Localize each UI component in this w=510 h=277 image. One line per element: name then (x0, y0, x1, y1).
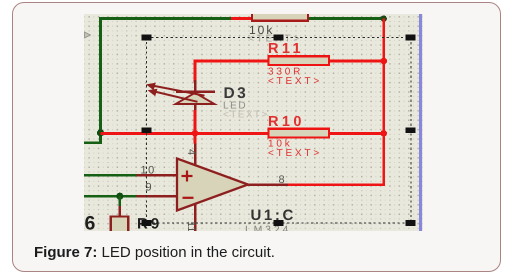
selection handle top-mid (274, 35, 284, 41)
svg-text:D3: D3 (224, 85, 249, 102)
svg-text:4: 4 (185, 149, 197, 155)
pin 10 stub (maroon) (137, 174, 178, 177)
marker: small gray chevron at sheet edge (85, 32, 91, 38)
wire: green op-amp input 10 (84, 174, 137, 177)
op-amp triangle (177, 159, 248, 211)
pin 9 stub (maroon) (137, 195, 178, 198)
selection handle top-right (406, 35, 416, 41)
resistor R11 body (269, 56, 330, 65)
wire: red output horizontal to op-amp (287, 183, 384, 186)
selection handle bottom-right (406, 220, 416, 226)
caption: Figure 7 (34, 244, 275, 261)
node: red junction R10/right rail (380, 130, 387, 137)
wire: green op-amp input 9 (84, 195, 137, 198)
node: green junction on input 9 (116, 193, 123, 200)
node: red junction R11/right rail (380, 58, 387, 65)
node: red junction LED/horizontal wire (192, 130, 199, 137)
svg-text:<TEXT>: <TEXT> (223, 110, 269, 121)
resistor R9 body (cut at bottom) (111, 217, 129, 235)
node: green junction on left rail (97, 129, 104, 136)
LED triangle (176, 93, 215, 104)
pin 4 stub (maroon) (194, 143, 197, 166)
wire: green drop to R9 (118, 196, 121, 206)
window edge blue line (419, 14, 422, 231)
svg-text:10: 10 (141, 165, 156, 177)
selection handle top-left (141, 35, 151, 41)
LED cathode bar (176, 90, 215, 93)
op-amp U1:C (177, 133, 288, 232)
op-amp minus input mark (183, 197, 194, 199)
wire: red into pin 4 (194, 133, 197, 144)
wire: green sheet-left vertical (99, 17, 102, 133)
selection handle bottom-mid (274, 220, 284, 226)
LED cathode pin (maroon) (194, 80, 197, 91)
svg-text:<TEXT>: <TEXT> (268, 76, 322, 87)
wire: red LED top wire (194, 60, 197, 83)
wire: red LED bottom wire (194, 110, 197, 134)
svg-text:U1:C: U1:C (251, 207, 296, 224)
svg-text:<TEXT>: <TEXT> (268, 148, 322, 159)
wire: red horizontal mid rail (left part) (101, 132, 269, 135)
wire: red right-side vertical rail (382, 19, 385, 187)
wire: red R10 right wire (329, 132, 384, 135)
svg-text:8: 8 (279, 174, 285, 186)
schematic background (84, 14, 423, 231)
resistor (10k, top, cut off) body (252, 4, 308, 21)
LED arrow 1 (146, 83, 205, 102)
LED anode pin (maroon) (194, 104, 197, 111)
svg-text:R10: R10 (268, 114, 305, 130)
wire: red R11 left wire (194, 60, 269, 63)
LED D3 symbol (146, 80, 215, 111)
op-amp plus input mark (182, 171, 194, 198)
resistor R10 body (269, 129, 330, 138)
selection handle bottom-left (141, 220, 151, 226)
R9 top pin (maroon) (119, 206, 122, 217)
svg-text:LM324: LM324 (245, 224, 291, 231)
selection handle mid-left (141, 128, 151, 134)
pin 8 output stub (maroon) (246, 183, 288, 186)
svg-text:6: 6 (85, 213, 96, 232)
node: green dot top right (381, 15, 387, 21)
schematic screenshot (84, 14, 423, 231)
selection rectangle (dashed) (147, 38, 411, 224)
LED arrow 2 (156, 92, 198, 102)
wire: red segment before top resistor (231, 17, 252, 20)
pin 11 stub (maroon) (194, 203, 197, 231)
svg-text:R11: R11 (268, 41, 304, 57)
wire: green top horizontal to 10k resistor (99, 17, 231, 20)
wire: green elbow lower-left (84, 133, 101, 143)
wire: red R11 right wire (329, 60, 384, 63)
selection handle mid-right (406, 128, 416, 134)
wire: green top horizontal right of resistor (309, 17, 382, 20)
